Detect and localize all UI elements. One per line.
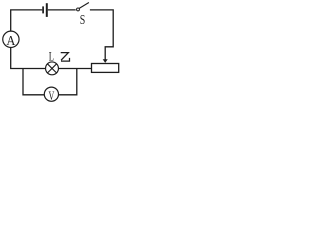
svg-text:A: A xyxy=(6,34,16,49)
wire ammeter bottom to lamp left xyxy=(11,47,46,68)
svg-text:S: S xyxy=(80,13,86,28)
svg-text:V: V xyxy=(49,89,55,103)
voltmeter V circle xyxy=(44,87,58,101)
switch S lever xyxy=(79,3,89,9)
wire rheostat to lamp xyxy=(58,68,91,70)
battery B1 short plate xyxy=(42,6,44,13)
wire voltmeter branch left xyxy=(23,69,44,95)
lamp L circle xyxy=(46,62,59,75)
switch S pivot xyxy=(77,8,80,11)
wire voltmeter branch right xyxy=(59,69,77,95)
lamp L cross stroke 1 xyxy=(47,64,56,73)
wire battery to switch xyxy=(48,9,76,11)
svg-text:L: L xyxy=(49,50,54,64)
battery B1 long plate xyxy=(46,3,48,17)
label 乙 (lamp name) xyxy=(61,53,70,62)
ammeter A circle xyxy=(3,31,19,47)
wire switch to right side down to rheostat arrow xyxy=(90,10,113,60)
rheostat slider arrowhead xyxy=(103,59,108,63)
wire top-left to ammeter top xyxy=(11,10,43,31)
lamp L cross stroke 2 xyxy=(47,64,56,73)
rheostat R body xyxy=(92,64,119,73)
